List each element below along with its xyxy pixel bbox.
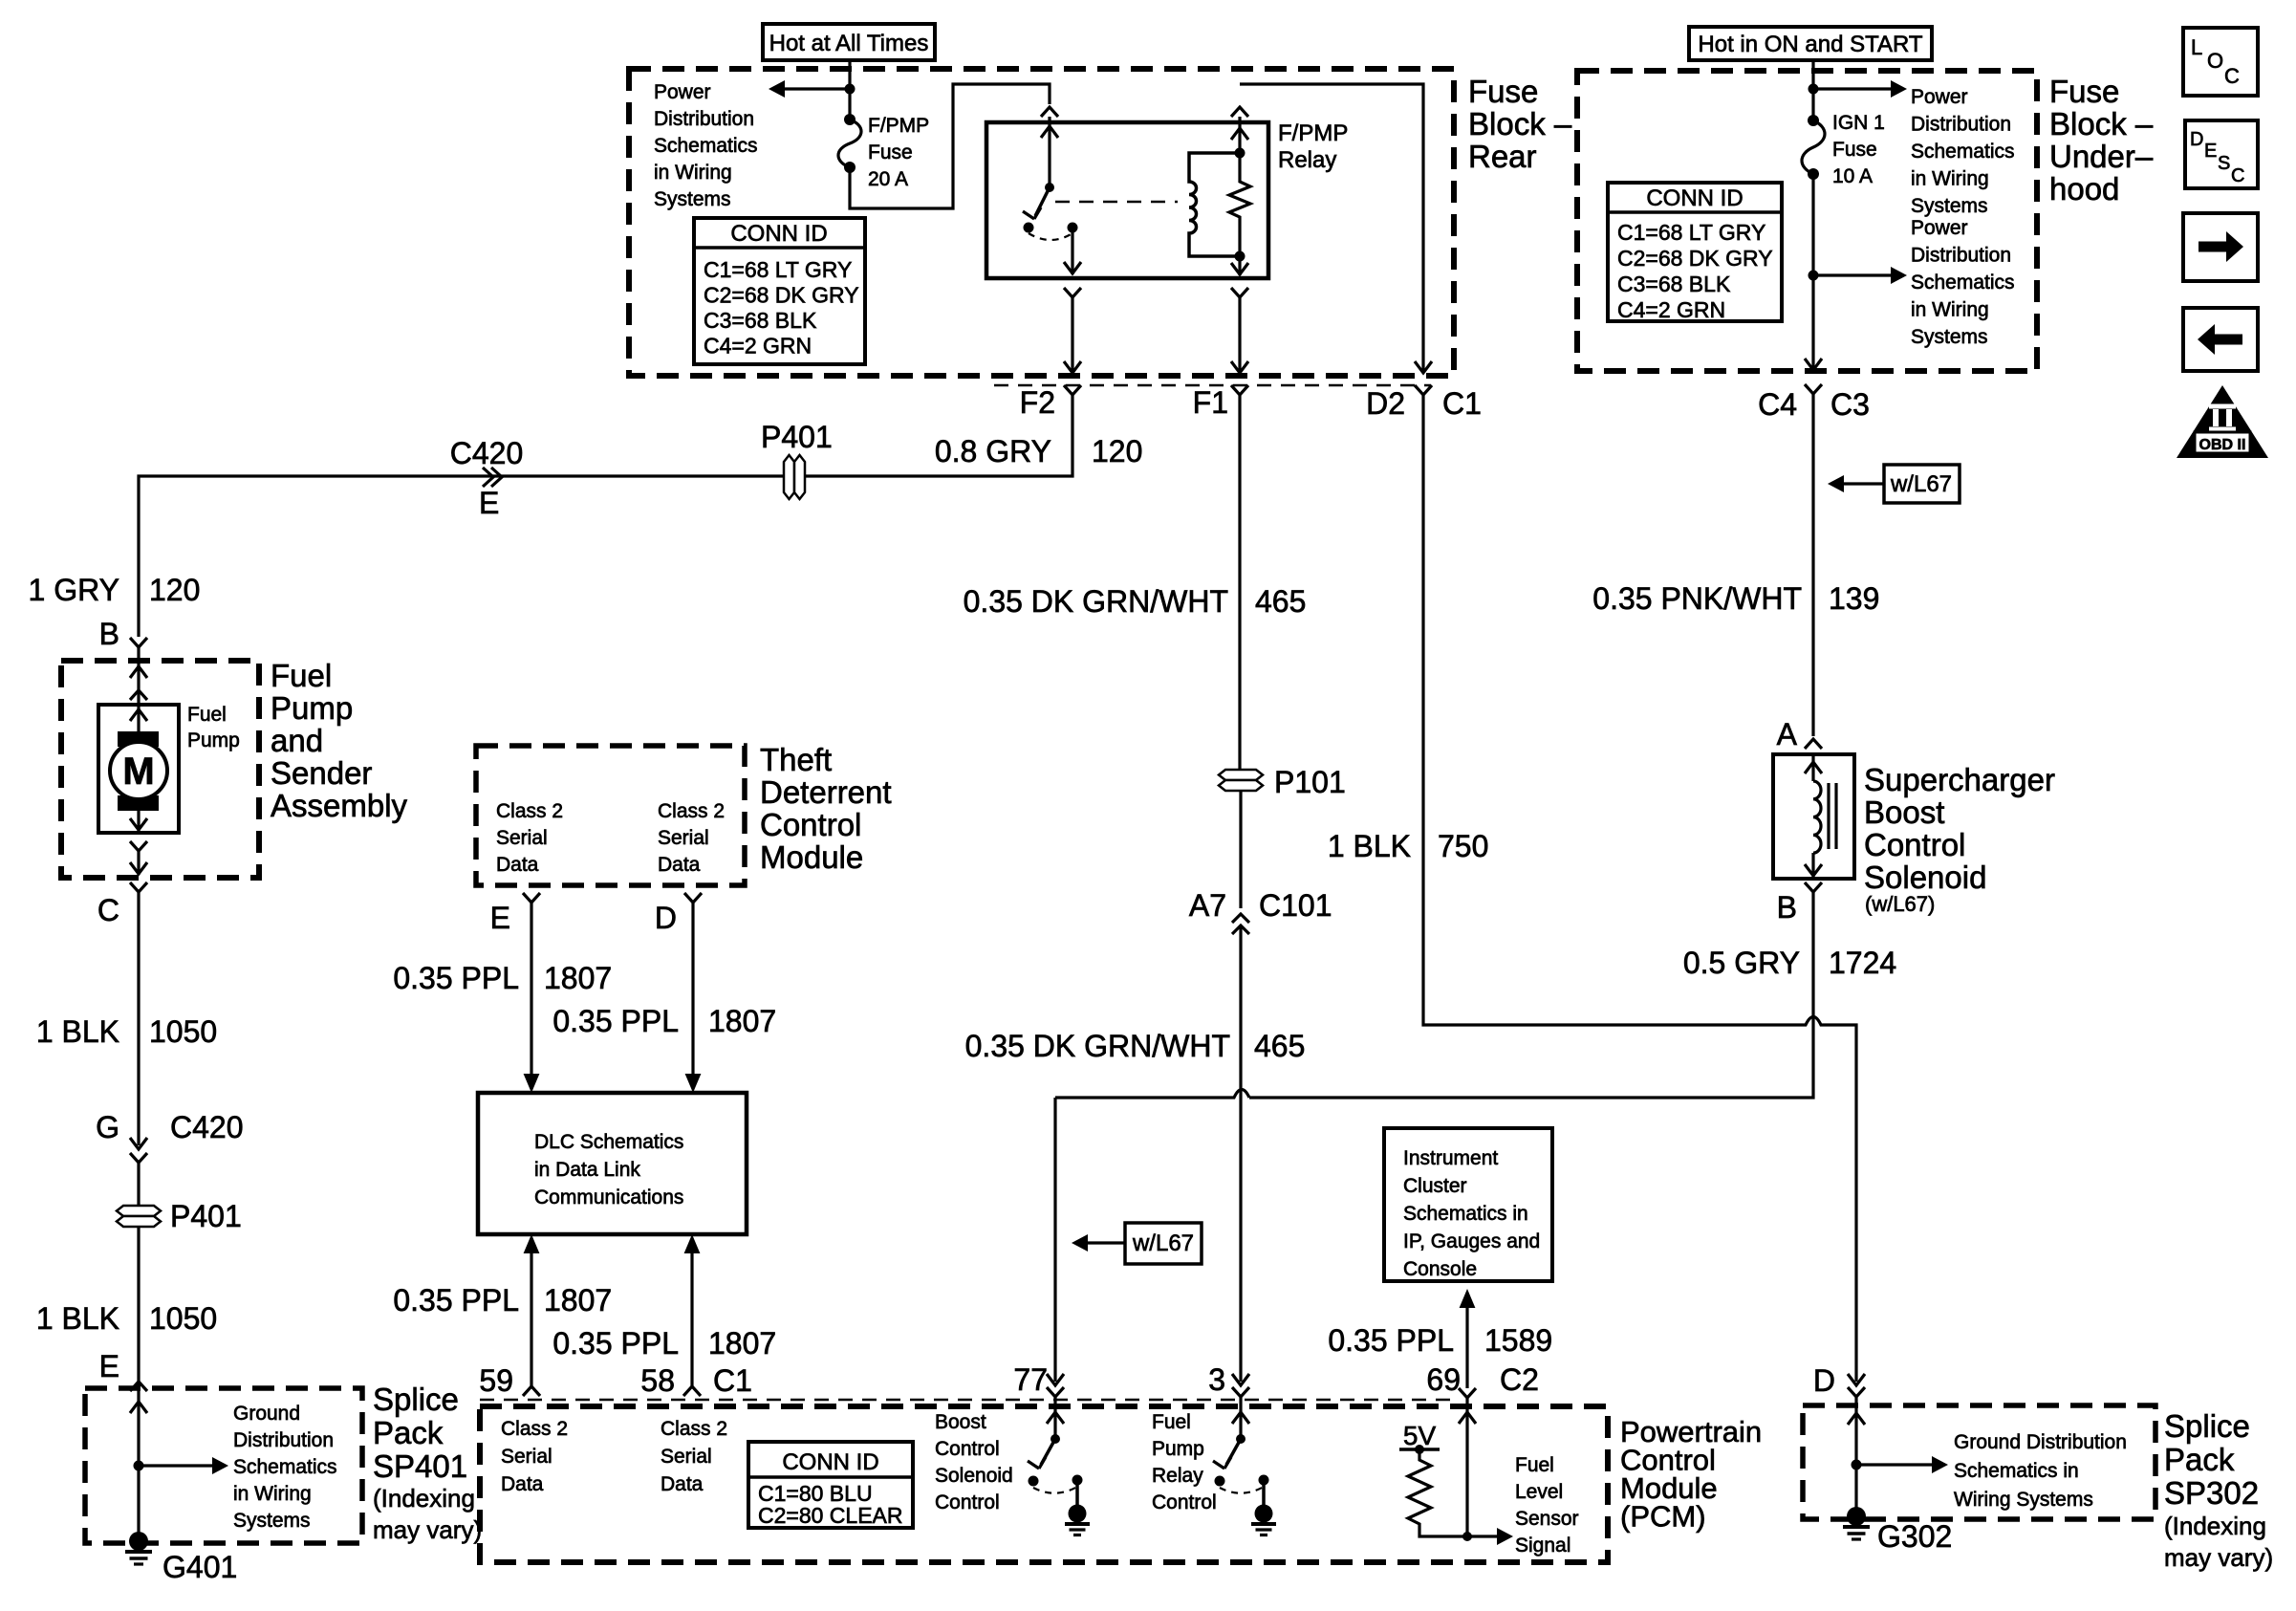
supercharger boost control solenoid box <box>1773 754 1854 879</box>
svg-text:Cluster: Cluster <box>1403 1175 1467 1197</box>
note Fuel Level Sensor Signal <box>1515 1454 1579 1557</box>
svg-text:M: M <box>122 751 154 793</box>
svg-text:in Wiring: in Wiring <box>233 1483 312 1505</box>
svg-text:Class 2: Class 2 <box>501 1418 568 1440</box>
svg-text:Systems: Systems <box>1911 195 1988 217</box>
wire 0.35 PPL 1807 E down <box>524 903 540 1093</box>
svg-text:Block –: Block – <box>2049 106 2154 142</box>
svg-text:C2: C2 <box>1500 1362 1539 1397</box>
wire into relay switch <box>1041 117 1058 187</box>
svg-text:D: D <box>655 901 677 935</box>
theft deterrent dashed box <box>476 746 745 885</box>
label 1 GRY 120 <box>29 573 201 607</box>
svg-text:120: 120 <box>149 573 200 607</box>
wire motor to C pin <box>130 811 147 875</box>
svg-text:w/L67: w/L67 <box>1132 1230 1194 1256</box>
motor M circle <box>110 742 167 799</box>
connector vee below relay right <box>1231 288 1248 297</box>
svg-text:Module: Module <box>760 839 863 875</box>
wire fuse feed from Hot at All Times <box>848 60 851 120</box>
svg-text:A: A <box>1777 717 1798 751</box>
svg-text:0.35 PNK/WHT: 0.35 PNK/WHT <box>1592 581 1802 616</box>
connector vee below relay left <box>1064 288 1081 297</box>
label Supercharger Boost Control Solenoid <box>1864 762 2055 916</box>
svg-text:Assembly: Assembly <box>271 788 408 823</box>
connector F1 <box>1193 385 1248 420</box>
svg-text:F2: F2 <box>1020 385 1055 420</box>
svg-text:Data: Data <box>661 1473 704 1495</box>
svg-text:C2=68 DK GRY: C2=68 DK GRY <box>704 283 859 308</box>
svg-text:F1: F1 <box>1193 385 1228 420</box>
connector A solenoid <box>1777 717 1822 751</box>
note Class 2 Serial Data PCM left <box>501 1418 568 1495</box>
wire 0.5 GRY 1724 <box>1249 892 1813 1098</box>
connector C4 C3 <box>1758 384 1870 422</box>
svg-text:C4=2 GRN: C4=2 GRN <box>1617 297 1725 322</box>
svg-text:Sensor: Sensor <box>1515 1508 1579 1530</box>
svg-text:C1=68 LT GRY: C1=68 LT GRY <box>704 257 852 282</box>
wire 0.35 DK GRN WHT 465 lower <box>1232 925 1249 1385</box>
pin C1 label <box>713 1363 752 1398</box>
arrow fuel level sensor signal <box>1467 1528 1513 1545</box>
splice pack SP302 dashed box <box>1803 1405 2155 1519</box>
svg-text:465: 465 <box>1254 1029 1305 1063</box>
svg-text:F/PMP: F/PMP <box>1278 120 1348 146</box>
PCM dashed box <box>480 1406 1608 1562</box>
fuse block rear dashed box <box>629 69 1454 376</box>
note Fuel Pump Relay Control <box>1152 1411 1217 1513</box>
fuse IGN 1 10 A <box>1802 112 1885 187</box>
relay right pin wire <box>1231 117 1248 275</box>
note Ground Distribution Schematics SP401 <box>233 1403 337 1532</box>
svg-text:Schematics in: Schematics in <box>1954 1460 2079 1482</box>
relay F/PMP box <box>986 122 1268 278</box>
svg-text:Splice: Splice <box>2164 1408 2250 1444</box>
pin 58 <box>640 1363 675 1398</box>
svg-text:C: C <box>2224 64 2240 88</box>
svg-text:O: O <box>2207 49 2223 73</box>
svg-text:Pump: Pump <box>187 729 240 751</box>
wire to P401 <box>137 1163 140 1541</box>
label Fuel Pump <box>187 704 240 751</box>
svg-text:Class 2: Class 2 <box>496 800 563 822</box>
svg-text:Instrument: Instrument <box>1403 1147 1498 1169</box>
svg-text:CONN ID: CONN ID <box>730 221 827 247</box>
svg-text:Distribution: Distribution <box>1911 114 2011 136</box>
solenoid core lines <box>1829 783 1836 849</box>
svg-text:Level: Level <box>1515 1481 1563 1503</box>
svg-text:0.35 DK GRN/WHT: 0.35 DK GRN/WHT <box>965 1029 1230 1063</box>
solenoid coil <box>1805 754 1822 879</box>
relay switched output wire down <box>1064 228 1081 274</box>
svg-text:69: 69 <box>1426 1362 1461 1397</box>
connector E theft <box>490 893 540 935</box>
connector B solenoid <box>1777 882 1822 925</box>
switch boost control pin 77 <box>1028 1397 1090 1535</box>
wire to C101 <box>1239 791 1242 908</box>
svg-text:Pack: Pack <box>373 1415 444 1450</box>
note Instrument Cluster Schematics <box>1403 1147 1540 1280</box>
svg-text:465: 465 <box>1255 584 1306 619</box>
svg-text:Power: Power <box>654 81 711 103</box>
svg-text:0.8 GRY: 0.8 GRY <box>935 434 1051 468</box>
relay coil junction dots <box>1235 148 1245 262</box>
svg-text:Pump: Pump <box>1152 1438 1204 1460</box>
svg-text:C3: C3 <box>1830 387 1870 422</box>
relay switch arm <box>1023 187 1050 219</box>
connector D SP302 <box>1813 1363 1865 1398</box>
junction dot fuel level signal <box>1462 1532 1472 1541</box>
svg-text:Relay: Relay <box>1278 147 1336 173</box>
svg-text:E: E <box>490 901 510 935</box>
note DLC Schematics in Data Link Communications <box>534 1131 683 1208</box>
svg-text:120: 120 <box>1092 434 1142 468</box>
svg-text:in Wiring: in Wiring <box>1911 168 1989 190</box>
svg-text:Data: Data <box>658 854 701 876</box>
fuel pump motor box <box>98 705 179 833</box>
svg-text:C: C <box>2231 165 2244 186</box>
svg-text:C420: C420 <box>170 1110 244 1144</box>
label Fuse Block - Rear <box>1468 74 1572 174</box>
switch fuel pump relay pin 3 <box>1213 1397 1276 1535</box>
junction dot c3 branch <box>1809 271 1819 281</box>
fuse F/PMP 20 A <box>838 114 929 190</box>
svg-text:77: 77 <box>1013 1362 1048 1397</box>
label 1 BLK 750 <box>1328 829 1489 863</box>
svg-text:Schematics: Schematics <box>1911 272 2015 294</box>
svg-text:Fuel: Fuel <box>1152 1411 1191 1433</box>
svg-text:C1: C1 <box>713 1363 752 1398</box>
label 0.35 PNK WHT 139 <box>1592 581 1879 616</box>
label Fuel Pump and Sender Assembly <box>271 658 408 823</box>
svg-text:0.35 DK GRN/WHT: 0.35 DK GRN/WHT <box>964 584 1228 619</box>
svg-text:Schematics: Schematics <box>233 1456 337 1478</box>
svg-text:1 BLK: 1 BLK <box>1328 829 1411 863</box>
svg-text:Data: Data <box>496 854 539 876</box>
svg-text:1807: 1807 <box>544 961 612 995</box>
svg-text:Power: Power <box>1911 217 1968 239</box>
svg-text:C3=68 BLK: C3=68 BLK <box>704 308 817 333</box>
label Fuse Block - Underhood <box>2049 74 2154 207</box>
wire 0.35 PNK WHT 139 <box>1811 394 1814 736</box>
PCM connector row dashed line <box>480 1399 1456 1402</box>
svg-text:Theft: Theft <box>760 742 832 777</box>
svg-text:1 GRY: 1 GRY <box>29 573 119 607</box>
svg-text:Signal: Signal <box>1515 1535 1570 1557</box>
connector E splice pack <box>99 1349 147 1413</box>
grommet P401 bottom <box>117 1199 242 1233</box>
wire fuse to relay common <box>850 84 1050 208</box>
svg-text:Serial: Serial <box>658 827 709 849</box>
wire relay output to F2 <box>1064 297 1081 373</box>
svg-text:Under–: Under– <box>2049 139 2154 174</box>
connector G C420 <box>96 1110 243 1163</box>
svg-text:0.35 PPL: 0.35 PPL <box>552 1004 679 1038</box>
label Splice Pack SP302 <box>2164 1408 2273 1572</box>
svg-text:D2: D2 <box>1366 386 1405 421</box>
svg-text:Supercharger: Supercharger <box>1864 762 2055 797</box>
wire ignition feed <box>1811 60 1814 120</box>
svg-text:and: and <box>271 723 323 758</box>
svg-text:0.35 PPL: 0.35 PPL <box>393 961 519 995</box>
svg-text:Solenoid: Solenoid <box>935 1465 1013 1487</box>
svg-text:Communications: Communications <box>534 1186 683 1208</box>
relay switch contact dots <box>1024 223 1078 233</box>
connector D theft <box>655 893 702 935</box>
wire 0.5 GRY elbow to pin 77 <box>1055 1090 1249 1099</box>
svg-text:58: 58 <box>640 1363 675 1398</box>
svg-text:w/L67: w/L67 <box>1890 471 1952 497</box>
svg-text:Serial: Serial <box>501 1446 552 1468</box>
svg-text:C4: C4 <box>1758 387 1797 422</box>
CONN ID table rear <box>694 218 865 364</box>
svg-text:Pump: Pump <box>271 690 353 726</box>
svg-text:Systems: Systems <box>233 1510 311 1532</box>
svg-text:20 A: 20 A <box>868 168 908 190</box>
label 0.35 DK GRN WHT 465 upper <box>964 584 1307 619</box>
arrow to power distribution schematics <box>769 80 850 98</box>
svg-text:Fuse: Fuse <box>868 142 913 163</box>
5V supply <box>1399 1421 1440 1454</box>
svg-text:SP401: SP401 <box>373 1448 467 1484</box>
svg-text:E: E <box>99 1349 119 1383</box>
svg-text:Wiring Systems: Wiring Systems <box>1954 1489 2093 1511</box>
wire 0.35 DK GRN WHT 465 upper <box>1238 395 1241 771</box>
arrow to power distribution (underhood top) <box>1813 80 1907 98</box>
note Class 2 Serial Data PCM right <box>661 1418 727 1495</box>
wire 0.8 GRY 120 from F2 to fuel pump <box>139 395 1072 637</box>
svg-text:Ground Distribution: Ground Distribution <box>1954 1431 2127 1453</box>
wire 1 BLK 1050 upper <box>130 892 147 1149</box>
junction dot SP401 <box>134 1461 144 1471</box>
relay coil <box>1189 153 1240 256</box>
grommet P101 <box>1219 765 1346 799</box>
wire 1 BLK 750 <box>1423 395 1865 1385</box>
svg-text:1 BLK: 1 BLK <box>36 1014 119 1049</box>
svg-text:Relay: Relay <box>1152 1465 1203 1487</box>
svg-text:C2=80 CLEAR: C2=80 CLEAR <box>758 1503 903 1528</box>
svg-text:Schematics: Schematics <box>1911 141 2015 163</box>
svg-text:10 A: 10 A <box>1832 165 1873 187</box>
svg-text:Ground: Ground <box>233 1403 300 1425</box>
svg-text:G302: G302 <box>1877 1519 1952 1554</box>
svg-text:IP, Gauges and: IP, Gauges and <box>1403 1230 1540 1252</box>
svg-text:Boost: Boost <box>935 1411 986 1433</box>
svg-text:(Indexing: (Indexing <box>2164 1512 2266 1540</box>
svg-text:(w/L67): (w/L67) <box>1865 892 1935 916</box>
arrow ground distribution SP302 <box>1856 1456 1948 1473</box>
icon LOC <box>2183 28 2258 96</box>
svg-text:S: S <box>2218 153 2230 174</box>
svg-text:(PCM): (PCM) <box>1620 1500 1706 1534</box>
label 0.35 DK GRN WHT 465 lower <box>965 1029 1306 1063</box>
svg-text:Control: Control <box>760 807 861 842</box>
motor brushes <box>118 731 159 811</box>
fuel pump assembly dashed box <box>61 661 259 878</box>
CONN ID table PCM <box>748 1442 913 1528</box>
svg-text:C2=68 DK GRY: C2=68 DK GRY <box>1617 246 1773 271</box>
svg-text:Boost: Boost <box>1864 795 1944 830</box>
icon arrow left <box>2183 308 2258 371</box>
svg-text:1050: 1050 <box>149 1014 217 1049</box>
svg-text:G: G <box>96 1110 119 1144</box>
svg-text:C101: C101 <box>1259 888 1332 923</box>
svg-text:Fuse: Fuse <box>1832 139 1877 161</box>
svg-text:DLC Schematics: DLC Schematics <box>534 1131 683 1153</box>
icon DESC <box>2185 120 2258 188</box>
relay resistor <box>1229 153 1250 256</box>
svg-text:G401: G401 <box>162 1550 237 1584</box>
svg-text:Hot in ON and START: Hot in ON and START <box>1698 32 1923 57</box>
svg-text:SP302: SP302 <box>2164 1475 2259 1511</box>
svg-text:3: 3 <box>1208 1362 1225 1397</box>
svg-text:Block –: Block – <box>1468 106 1572 142</box>
svg-text:Serial: Serial <box>661 1446 712 1468</box>
svg-text:Class 2: Class 2 <box>658 800 725 822</box>
svg-text:may vary): may vary) <box>373 1515 482 1544</box>
svg-text:F/PMP: F/PMP <box>868 115 929 137</box>
svg-text:1724: 1724 <box>1829 946 1896 980</box>
svg-text:Class 2: Class 2 <box>661 1418 727 1440</box>
label 0.35 PPL 1807 row2 <box>552 1004 776 1038</box>
svg-text:C4=2 GRN: C4=2 GRN <box>704 334 812 359</box>
arrow to power distribution (underhood bottom) <box>1813 267 1907 284</box>
svg-text:OBD II: OBD II <box>2199 437 2246 453</box>
label 0.35 PPL 1807 row3 <box>393 1283 612 1317</box>
label 0.35 PPL 1807 row4 <box>552 1326 776 1361</box>
connector chevron relay right pin top <box>1231 107 1248 117</box>
wire into fuel pump <box>130 647 147 731</box>
svg-text:C3=68 BLK: C3=68 BLK <box>1617 272 1731 296</box>
connector F2 <box>1020 385 1081 420</box>
w/L67 tag upper <box>1828 465 1960 503</box>
svg-text:Control: Control <box>935 1491 1000 1513</box>
svg-text:C: C <box>97 893 119 927</box>
svg-text:D: D <box>1813 1363 1835 1398</box>
note Power Distribution Schematics (underhood top) <box>1911 86 2015 217</box>
CONN ID table underhood <box>1608 183 1782 322</box>
DLC schematics box <box>478 1093 747 1234</box>
svg-text:CONN ID: CONN ID <box>782 1449 878 1475</box>
svg-text:L: L <box>2191 35 2202 59</box>
svg-text:1807: 1807 <box>708 1326 776 1361</box>
svg-text:Deterrent: Deterrent <box>760 774 892 810</box>
wire relay coil feed to D2 <box>1240 84 1432 373</box>
label 0.35 PPL 1807 row1 <box>393 961 612 995</box>
svg-text:hood: hood <box>2049 171 2119 207</box>
fuse block underhood dashed box <box>1577 71 2037 371</box>
connector A7 C101 <box>1189 888 1332 934</box>
svg-text:Data: Data <box>501 1473 544 1495</box>
label 0.35 PPL 1589 <box>1328 1323 1552 1358</box>
svg-text:0.35 PPL: 0.35 PPL <box>552 1326 679 1361</box>
wire into SP302 <box>1848 1397 1865 1516</box>
svg-text:Fuel: Fuel <box>271 658 332 693</box>
svg-text:B: B <box>1777 890 1797 925</box>
svg-text:750: 750 <box>1438 829 1488 863</box>
junction dot ignition feed <box>1809 84 1819 95</box>
svg-text:Fuel: Fuel <box>187 704 227 726</box>
note Class 2 Serial Data theft left <box>496 800 563 876</box>
icon arrow right <box>2183 213 2258 281</box>
wire pin 69 into PCM <box>1459 1398 1476 1536</box>
arrow ground distribution SP401 <box>139 1457 228 1474</box>
svg-text:IGN 1: IGN 1 <box>1832 112 1885 134</box>
note Boost Control Solenoid Control <box>935 1411 1013 1513</box>
svg-text:Sender: Sender <box>271 755 372 791</box>
label 1 BLK 1050 lower <box>36 1301 217 1336</box>
wire 0.35 PPL 1807 D down <box>685 903 702 1093</box>
fuel level sensor resistor <box>1408 1449 1467 1536</box>
connector B fuel pump <box>99 617 147 651</box>
svg-text:Control: Control <box>935 1438 1000 1460</box>
label Powertrain Control Module PCM <box>1620 1415 1762 1534</box>
svg-text:Fuel: Fuel <box>1515 1454 1554 1476</box>
svg-text:Schematics: Schematics <box>654 135 758 157</box>
w/L67 tag lower <box>1072 1223 1202 1264</box>
note Ground Distribution Schematics SP302 <box>1954 1431 2127 1511</box>
svg-text:C420: C420 <box>450 436 524 470</box>
svg-text:may vary): may vary) <box>2164 1543 2273 1572</box>
svg-text:0.35 PPL: 0.35 PPL <box>393 1283 519 1317</box>
label F/PMP Relay <box>1278 120 1348 173</box>
ground G401 <box>125 1532 237 1584</box>
pin 3 <box>1208 1362 1249 1397</box>
svg-text:P401: P401 <box>170 1199 242 1233</box>
svg-text:P101: P101 <box>1274 765 1346 799</box>
svg-text:E: E <box>2204 141 2217 162</box>
wire ign fuse down <box>1805 174 1822 370</box>
svg-text:0.35 PPL: 0.35 PPL <box>1328 1323 1454 1358</box>
relay mechanical dashed link <box>1055 201 1178 204</box>
svg-text:in Wiring: in Wiring <box>1911 299 1989 321</box>
svg-text:in Wiring: in Wiring <box>654 162 732 184</box>
svg-text:Distribution: Distribution <box>654 108 754 130</box>
splice pack SP401 dashed box <box>85 1388 362 1543</box>
svg-text:1050: 1050 <box>149 1301 217 1336</box>
svg-text:1807: 1807 <box>708 1004 776 1038</box>
svg-text:Fuse: Fuse <box>2049 74 2119 109</box>
svg-text:1 BLK: 1 BLK <box>36 1301 119 1336</box>
connector chevron relay pin 30 feed <box>1041 107 1058 117</box>
svg-text:A7: A7 <box>1189 888 1226 923</box>
junction dot SP302 <box>1852 1460 1862 1470</box>
ground G302 <box>1843 1507 1952 1554</box>
svg-text:1807: 1807 <box>544 1283 612 1317</box>
wire pin 59 to DLC <box>523 1234 540 1396</box>
svg-text:139: 139 <box>1829 581 1879 616</box>
svg-text:Schematics in: Schematics in <box>1403 1203 1528 1225</box>
svg-text:Fuse: Fuse <box>1468 74 1538 109</box>
svg-text:59: 59 <box>479 1363 513 1398</box>
pin 77 <box>1013 1362 1064 1397</box>
grommet P401 top <box>761 420 833 499</box>
svg-text:D: D <box>2190 129 2203 150</box>
relay switch pivot dot <box>1045 183 1054 192</box>
label Theft Deterrent Control Module <box>760 742 892 875</box>
svg-text:P401: P401 <box>761 420 833 454</box>
connector D2 C1 <box>1366 385 1482 421</box>
svg-text:Control: Control <box>1864 827 1965 862</box>
label 0.8 GRY 120 <box>935 434 1143 468</box>
icon OBD II triangle <box>2177 385 2268 458</box>
connector C420 pin E inline <box>450 436 524 520</box>
svg-text:Rear: Rear <box>1468 139 1537 174</box>
svg-text:0.5 GRY: 0.5 GRY <box>1683 946 1800 980</box>
note Power Distribution Schematics (underhood bottom) <box>1911 217 2015 348</box>
pin 69 C2 <box>1426 1362 1539 1398</box>
wire down to pin 77 <box>1047 1098 1064 1385</box>
